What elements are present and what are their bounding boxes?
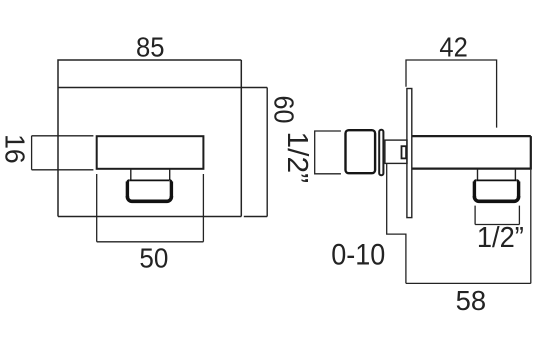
- svg-text:1/2”: 1/2”: [281, 132, 313, 184]
- svg-text:1/2”: 1/2”: [477, 222, 524, 254]
- svg-text:0-10: 0-10: [331, 239, 385, 272]
- svg-text:50: 50: [139, 243, 168, 274]
- svg-text:60: 60: [269, 96, 300, 124]
- svg-text:16: 16: [0, 134, 30, 164]
- svg-text:42: 42: [439, 31, 467, 62]
- svg-text:58: 58: [456, 285, 487, 316]
- svg-text:85: 85: [136, 31, 165, 62]
